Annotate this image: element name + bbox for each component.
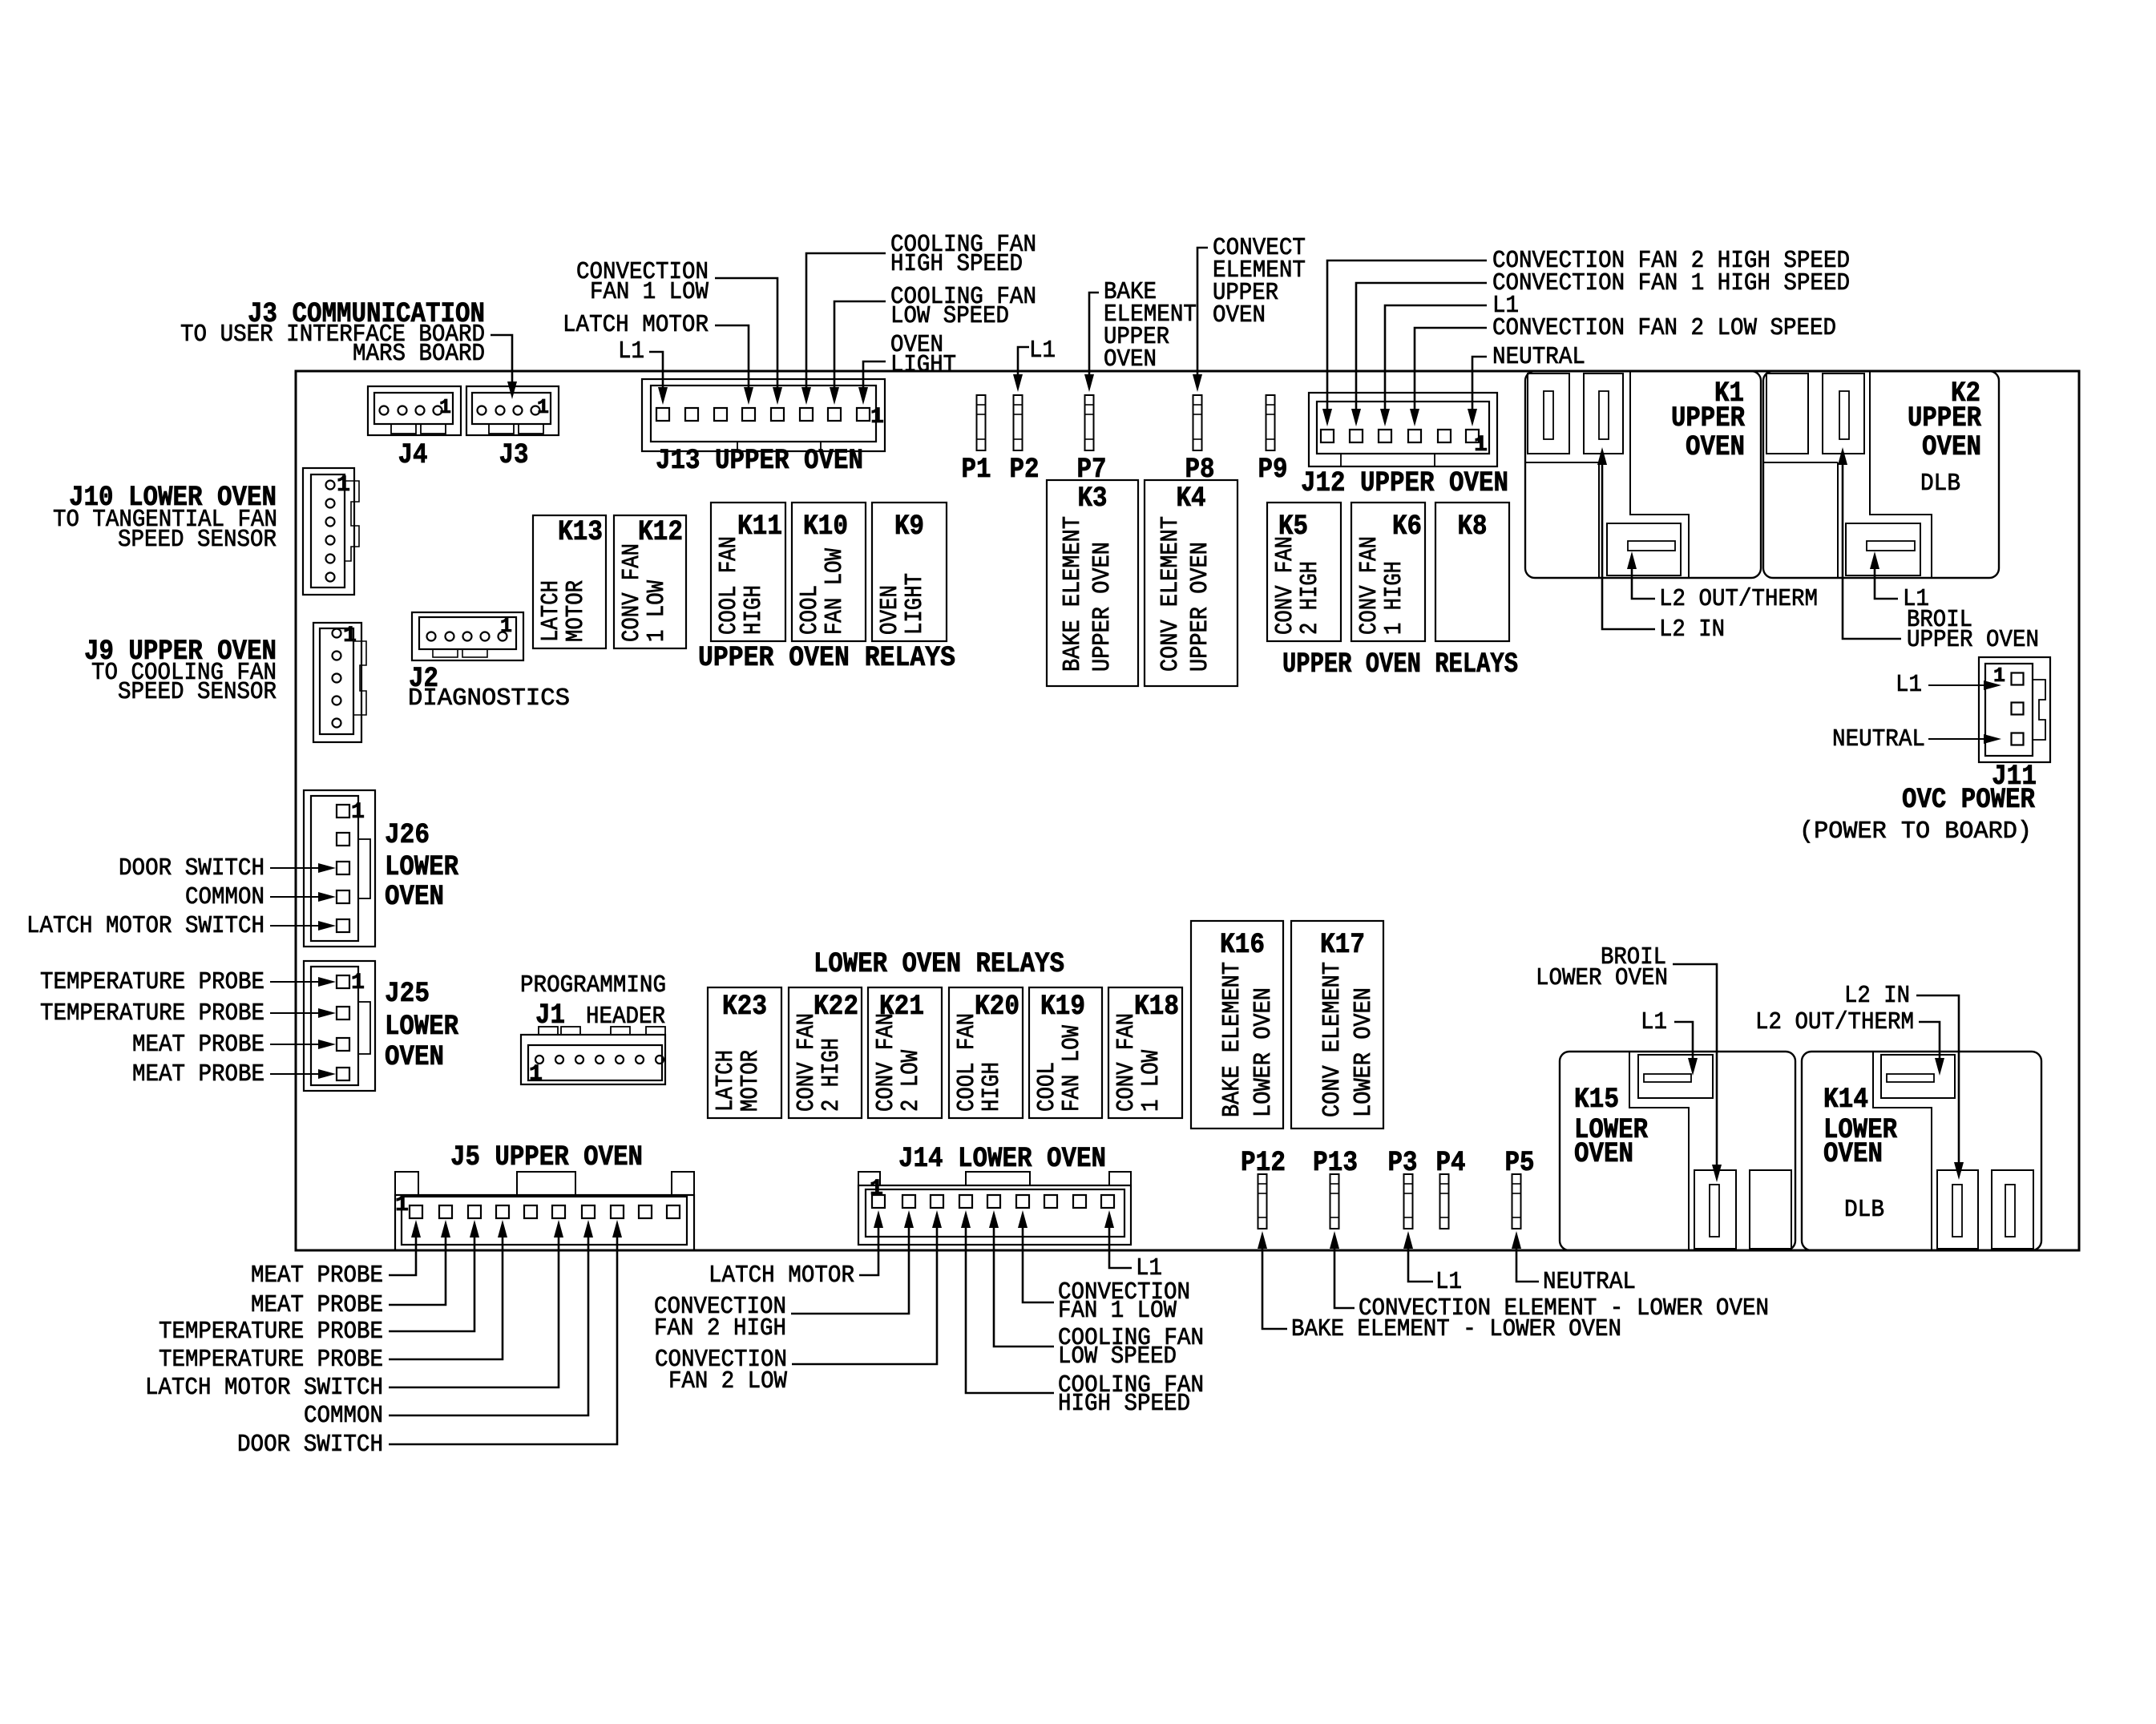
svg-text:LOW SPEED: LOW SPEED bbox=[1058, 1342, 1177, 1371]
svg-text:OVEN: OVEN bbox=[1686, 431, 1745, 463]
relay K12 bbox=[614, 515, 686, 648]
label LATCH MOTOR (J14) bbox=[709, 1262, 854, 1290]
svg-text:P4: P4 bbox=[1436, 1147, 1466, 1179]
connector J2 bbox=[412, 612, 523, 660]
svg-text:P2: P2 bbox=[1010, 454, 1040, 486]
label L1 (K2) bbox=[1903, 585, 1929, 613]
svg-text:J1: J1 bbox=[535, 999, 565, 1032]
svg-text:TEMPERATURE PROBE: TEMPERATURE PROBE bbox=[159, 1346, 383, 1374]
label CONVECTION FAN 1 HIGH SPEED (J12) bbox=[1492, 269, 1850, 297]
wire bbox=[389, 1220, 622, 1444]
svg-text:LOWER OVEN: LOWER OVEN bbox=[1536, 964, 1668, 992]
svg-text:HIGH: HIGH bbox=[978, 1062, 1006, 1112]
svg-text:J13 UPPER OVEN: J13 UPPER OVEN bbox=[656, 445, 863, 477]
wire bbox=[989, 1210, 1054, 1346]
relay K15 bbox=[1560, 1052, 1795, 1250]
svg-text:2 LOW: 2 LOW bbox=[897, 1050, 925, 1112]
wire bbox=[1512, 1231, 1539, 1282]
label COOLING FAN HIGH SPEED bbox=[890, 231, 1036, 278]
wire bbox=[1322, 260, 1487, 426]
svg-text:(POWER TO BOARD): (POWER TO BOARD) bbox=[1799, 818, 2032, 846]
wire to P8 bbox=[1193, 248, 1208, 392]
label L2 OUT/THERM (K14) bbox=[1755, 1008, 1914, 1036]
relay K3 bbox=[1047, 480, 1138, 686]
svg-text:CONV FAN: CONV FAN bbox=[872, 1013, 900, 1112]
wire bbox=[859, 1210, 883, 1275]
svg-text:FAN LOW: FAN LOW bbox=[821, 548, 849, 635]
svg-text:J4: J4 bbox=[398, 439, 428, 471]
connector J26 bbox=[304, 790, 375, 947]
svg-text:COMMON: COMMON bbox=[304, 1402, 383, 1430]
svg-text:UPPER OVEN: UPPER OVEN bbox=[1186, 542, 1214, 672]
svg-text:NEUTRAL: NEUTRAL bbox=[1492, 343, 1585, 371]
label L2 IN (K14) bbox=[1844, 982, 1910, 1010]
svg-text:K19: K19 bbox=[1040, 991, 1085, 1023]
label J3 COMMUNICATION bbox=[180, 298, 485, 368]
svg-text:DIAGNOSTICS: DIAGNOSTICS bbox=[408, 684, 570, 713]
label CONVECTION FAN 2 LOW SPEED (J12) bbox=[1492, 314, 1836, 342]
wire to P7 bbox=[1084, 293, 1099, 392]
svg-text:CONV FAN: CONV FAN bbox=[618, 543, 646, 642]
svg-text:OVEN: OVEN bbox=[1823, 1138, 1883, 1170]
pin P1 bbox=[977, 395, 986, 450]
svg-text:UPPER: UPPER bbox=[1671, 402, 1745, 434]
label MEAT PROBE (J5) bbox=[251, 1262, 383, 1290]
relay K19 bbox=[1029, 987, 1102, 1118]
label J13 UPPER OVEN bbox=[656, 445, 863, 477]
wire to K15 top slot bbox=[1674, 1022, 1698, 1076]
svg-text:DLB: DLB bbox=[1920, 470, 1960, 498]
svg-text:OVC POWER: OVC POWER bbox=[1902, 784, 2035, 816]
svg-text:BAKE ELEMENT: BAKE ELEMENT bbox=[1059, 516, 1087, 672]
wire bbox=[389, 1220, 563, 1387]
label TEMPERATURE PROBE bbox=[40, 999, 264, 1028]
label MEAT PROBE bbox=[132, 1060, 264, 1088]
wire bbox=[1468, 357, 1487, 426]
svg-text:HIGH: HIGH bbox=[740, 585, 768, 635]
label COOLING FAN HIGH SPEED (J14) bbox=[1058, 1371, 1204, 1418]
svg-text:CONV FAN: CONV FAN bbox=[1271, 536, 1299, 635]
label COOLING FAN LOW SPEED (J14) bbox=[1058, 1324, 1204, 1371]
svg-text:K20: K20 bbox=[975, 991, 1019, 1023]
svg-text:LIGHT: LIGHT bbox=[901, 573, 929, 635]
connector J12 bbox=[1309, 393, 1497, 466]
label P2 bbox=[1010, 454, 1040, 486]
svg-text:CONV FAN: CONV FAN bbox=[1355, 536, 1383, 635]
label P5 bbox=[1505, 1147, 1535, 1179]
wire bbox=[270, 1040, 336, 1049]
label LOWER OVEN RELAYS bbox=[814, 948, 1064, 980]
wire to J13 pin5 bbox=[715, 278, 782, 405]
svg-text:SPEED SENSOR: SPEED SENSOR bbox=[118, 678, 277, 706]
svg-text:P1: P1 bbox=[962, 454, 991, 486]
relay K5 bbox=[1267, 503, 1341, 641]
svg-text:LATCH MOTOR SWITCH: LATCH MOTOR SWITCH bbox=[145, 1374, 383, 1402]
wire bbox=[270, 1069, 336, 1079]
pin P5 bbox=[1512, 1174, 1521, 1229]
pin P13 bbox=[1330, 1174, 1339, 1229]
connector J3 bbox=[466, 386, 559, 435]
svg-text:OVEN: OVEN bbox=[385, 1041, 444, 1073]
label CONVECTION FAN 1 LOW bbox=[576, 258, 709, 306]
svg-text:K4: K4 bbox=[1177, 482, 1206, 515]
svg-text:COMMON: COMMON bbox=[185, 883, 264, 911]
svg-text:CONV ELEMENT: CONV ELEMENT bbox=[1157, 516, 1185, 672]
relay K11 bbox=[711, 503, 785, 641]
svg-text:CONV FAN: CONV FAN bbox=[1112, 1013, 1141, 1112]
wire bbox=[791, 1210, 914, 1314]
svg-text:LOWER: LOWER bbox=[385, 1011, 458, 1043]
label J2 DIAGNOSTICS bbox=[408, 663, 570, 713]
svg-text:L2 IN: L2 IN bbox=[1844, 982, 1910, 1010]
label P12 bbox=[1241, 1147, 1286, 1179]
wire bbox=[1351, 283, 1487, 426]
wire to K14 top slot bbox=[1919, 1022, 1944, 1076]
svg-text:1: 1 bbox=[337, 473, 350, 498]
label L1 (J11) bbox=[1896, 671, 1922, 699]
label COMMON (J5) bbox=[304, 1402, 383, 1430]
svg-text:P12: P12 bbox=[1241, 1147, 1286, 1179]
label UPPER OVEN RELAYS (left) bbox=[698, 642, 955, 674]
connector J13 bbox=[642, 379, 885, 451]
connector J10 bbox=[303, 468, 359, 595]
label MEAT PROBE bbox=[132, 1031, 264, 1059]
label L1 (K15) bbox=[1641, 1008, 1667, 1036]
svg-text:K11: K11 bbox=[737, 511, 782, 543]
svg-text:LATCH: LATCH bbox=[712, 1050, 740, 1112]
svg-text:LIGHT: LIGHT bbox=[890, 351, 956, 379]
svg-text:J5 UPPER OVEN: J5 UPPER OVEN bbox=[450, 1141, 643, 1173]
wire to J13 pin4 bbox=[715, 325, 753, 405]
pin P9 bbox=[1266, 395, 1275, 450]
label J10 LOWER OVEN bbox=[53, 482, 277, 554]
svg-text:OVEN: OVEN bbox=[1574, 1138, 1633, 1170]
relay K4 bbox=[1145, 480, 1237, 686]
label MEAT PROBE (J5) bbox=[251, 1291, 383, 1319]
svg-text:UPPER OVEN: UPPER OVEN bbox=[1088, 542, 1116, 672]
wire to P2 bbox=[1013, 347, 1029, 392]
svg-text:K16: K16 bbox=[1220, 929, 1265, 961]
svg-text:LOWER: LOWER bbox=[385, 851, 458, 883]
svg-text:HIGH SPEED: HIGH SPEED bbox=[1058, 1390, 1190, 1418]
svg-text:P9: P9 bbox=[1258, 454, 1288, 486]
wire bbox=[1403, 1231, 1433, 1282]
svg-text:K23: K23 bbox=[722, 991, 767, 1023]
wire to K1 top connector bbox=[1597, 447, 1655, 629]
label J11 OVC POWER bbox=[1799, 761, 2037, 846]
label P9 bbox=[1258, 454, 1288, 486]
label CONVECTION ELEMENT - LOWER OVEN bbox=[1359, 1294, 1769, 1322]
svg-text:DOOR SWITCH: DOOR SWITCH bbox=[237, 1431, 383, 1459]
wire bbox=[270, 1008, 336, 1018]
label L1 (P2) bbox=[1029, 337, 1056, 365]
label TEMPERATURE PROBE bbox=[40, 968, 264, 996]
svg-text:BAKE ELEMENT - LOWER OVEN: BAKE ELEMENT - LOWER OVEN bbox=[1291, 1315, 1621, 1343]
svg-text:K3: K3 bbox=[1078, 482, 1108, 515]
svg-text:2 HIGH: 2 HIGH bbox=[1296, 561, 1324, 635]
pin P7 bbox=[1085, 395, 1094, 450]
svg-text:MEAT PROBE: MEAT PROBE bbox=[251, 1291, 383, 1319]
pin P2 bbox=[1014, 395, 1023, 450]
label BROIL LOWER OVEN bbox=[1536, 943, 1668, 992]
relay K9 bbox=[872, 503, 947, 641]
svg-text:K18: K18 bbox=[1134, 991, 1179, 1023]
svg-text:TEMPERATURE PROBE: TEMPERATURE PROBE bbox=[159, 1318, 383, 1346]
connector J25 bbox=[304, 961, 375, 1091]
svg-text:2 HIGH: 2 HIGH bbox=[818, 1038, 846, 1112]
svg-text:1: 1 bbox=[870, 1177, 883, 1201]
svg-text:LOWER OVEN: LOWER OVEN bbox=[1350, 987, 1378, 1117]
svg-text:LATCH MOTOR SWITCH: LATCH MOTOR SWITCH bbox=[26, 912, 264, 940]
svg-text:COOL FAN: COOL FAN bbox=[715, 536, 743, 635]
label P7 bbox=[1077, 454, 1107, 486]
svg-text:1: 1 bbox=[870, 405, 884, 430]
label L2 IN (K1) bbox=[1659, 616, 1725, 644]
label J4 bbox=[398, 439, 428, 471]
svg-text:P3: P3 bbox=[1388, 1147, 1418, 1179]
svg-text:J14 LOWER OVEN: J14 LOWER OVEN bbox=[898, 1143, 1106, 1175]
wire bbox=[792, 1210, 942, 1364]
wire bbox=[1104, 1210, 1132, 1268]
relay K18 bbox=[1108, 987, 1182, 1118]
svg-text:K17: K17 bbox=[1320, 929, 1365, 961]
svg-text:K13: K13 bbox=[558, 516, 603, 548]
svg-text:OVEN: OVEN bbox=[1922, 431, 1981, 463]
wire to K1 lower slot bbox=[1627, 551, 1655, 599]
svg-text:MEAT PROBE: MEAT PROBE bbox=[132, 1031, 264, 1059]
label NEUTRAL (J11) bbox=[1832, 725, 1925, 753]
svg-text:L2 IN: L2 IN bbox=[1659, 616, 1725, 644]
connector J9 bbox=[313, 623, 366, 742]
svg-text:UPPER OVEN RELAYS: UPPER OVEN RELAYS bbox=[1282, 648, 1518, 680]
label BAKE ELEMENT UPPER OVEN bbox=[1104, 278, 1197, 373]
label NEUTRAL (J12) bbox=[1492, 343, 1585, 371]
svg-text:J26: J26 bbox=[385, 819, 430, 851]
svg-text:PROGRAMMING: PROGRAMMING bbox=[520, 971, 666, 999]
svg-text:L1: L1 bbox=[1029, 337, 1056, 365]
svg-text:MOTOR: MOTOR bbox=[562, 580, 590, 642]
svg-text:TEMPERATURE PROBE: TEMPERATURE PROBE bbox=[40, 968, 264, 996]
svg-text:1: 1 bbox=[351, 800, 365, 825]
svg-text:L2 OUT/THERM: L2 OUT/THERM bbox=[1659, 585, 1818, 613]
svg-text:1: 1 bbox=[500, 614, 512, 638]
svg-text:LOW SPEED: LOW SPEED bbox=[890, 302, 1009, 330]
wire to J13 pin1 bbox=[649, 352, 668, 405]
svg-text:K8: K8 bbox=[1458, 511, 1488, 543]
svg-text:J3: J3 bbox=[499, 439, 529, 471]
svg-text:DOOR SWITCH: DOOR SWITCH bbox=[119, 854, 264, 882]
svg-text:1 LOW: 1 LOW bbox=[643, 580, 671, 642]
label L1 (J12) bbox=[1492, 292, 1519, 320]
label TEMPERATURE PROBE (J5) bbox=[159, 1346, 383, 1374]
pin P3 bbox=[1404, 1174, 1413, 1229]
svg-text:K10: K10 bbox=[803, 511, 848, 543]
svg-text:J12 UPPER OVEN: J12 UPPER OVEN bbox=[1301, 467, 1508, 499]
svg-text:LOWER OVEN: LOWER OVEN bbox=[1250, 987, 1278, 1117]
connector J5 bbox=[395, 1172, 694, 1250]
svg-text:1: 1 bbox=[351, 971, 365, 995]
svg-text:1: 1 bbox=[343, 624, 357, 648]
label P3 bbox=[1388, 1147, 1418, 1179]
wire bbox=[1380, 305, 1487, 426]
svg-text:LATCH MOTOR: LATCH MOTOR bbox=[709, 1262, 854, 1290]
wire to K2 top connector bbox=[1838, 447, 1901, 639]
pin P12 bbox=[1258, 1174, 1267, 1229]
wire bbox=[961, 1210, 1054, 1393]
label J9 UPPER OVEN bbox=[84, 636, 277, 706]
label J12 UPPER OVEN bbox=[1301, 467, 1508, 499]
wire bbox=[389, 1220, 421, 1275]
connector J1 header bbox=[521, 1027, 665, 1087]
label NEUTRAL (P5) bbox=[1543, 1268, 1636, 1296]
label P1 bbox=[962, 454, 991, 486]
svg-text:UPPER OVEN RELAYS: UPPER OVEN RELAYS bbox=[698, 642, 955, 674]
relay K16 bbox=[1191, 921, 1283, 1128]
svg-text:NEUTRAL: NEUTRAL bbox=[1832, 725, 1925, 753]
svg-text:L1: L1 bbox=[618, 337, 644, 365]
svg-text:1: 1 bbox=[439, 395, 451, 419]
connector J4 bbox=[368, 386, 461, 435]
svg-text:CONVECTION FAN 2 LOW SPEED: CONVECTION FAN 2 LOW SPEED bbox=[1492, 314, 1836, 342]
label LATCH MOTOR SWITCH (J5) bbox=[145, 1374, 383, 1402]
wire bbox=[1410, 328, 1487, 426]
svg-text:FAN LOW: FAN LOW bbox=[1058, 1025, 1086, 1112]
svg-text:CONVECTION FAN 1 HIGH SPEED: CONVECTION FAN 1 HIGH SPEED bbox=[1492, 269, 1850, 297]
svg-text:SPEED SENSOR: SPEED SENSOR bbox=[118, 526, 277, 554]
svg-text:CONV ELEMENT: CONV ELEMENT bbox=[1318, 962, 1346, 1117]
relay K21 bbox=[868, 987, 942, 1118]
wire bbox=[389, 1220, 593, 1415]
wire bbox=[389, 1220, 450, 1305]
svg-text:1 LOW: 1 LOW bbox=[1137, 1050, 1165, 1112]
label CONVECTION FAN 2 LOW bbox=[655, 1346, 787, 1395]
wire bbox=[389, 1220, 479, 1331]
wire bbox=[270, 977, 336, 987]
svg-text:TEMPERATURE PROBE: TEMPERATURE PROBE bbox=[40, 999, 264, 1028]
label J5 UPPER OVEN bbox=[450, 1141, 643, 1173]
svg-text:MOTOR: MOTOR bbox=[737, 1050, 765, 1112]
relay K6 bbox=[1351, 503, 1425, 641]
label CONVECTION FAN 2 HIGH bbox=[654, 1293, 786, 1342]
relay K8 bbox=[1435, 503, 1509, 641]
svg-text:OVEN: OVEN bbox=[876, 585, 904, 635]
svg-text:DLB: DLB bbox=[1844, 1196, 1884, 1224]
wire J3 label leader bbox=[491, 335, 517, 399]
wire to K2 lower slot bbox=[1870, 551, 1898, 599]
label LATCH MOTOR SWITCH bbox=[26, 912, 264, 940]
wire bbox=[1330, 1231, 1355, 1308]
svg-text:COOL: COOL bbox=[1033, 1062, 1061, 1112]
svg-text:FAN 1 LOW: FAN 1 LOW bbox=[590, 278, 709, 306]
label J3 bbox=[499, 439, 529, 471]
svg-text:K9: K9 bbox=[894, 511, 924, 543]
label L1 (J14) bbox=[1136, 1254, 1162, 1282]
label COMMON bbox=[185, 883, 264, 911]
label UPPER OVEN RELAYS (right) bbox=[1282, 648, 1518, 680]
svg-text:K15: K15 bbox=[1574, 1084, 1619, 1116]
wire bbox=[270, 863, 336, 873]
wire bbox=[270, 892, 336, 902]
svg-text:1: 1 bbox=[395, 1193, 409, 1217]
svg-text:LATCH: LATCH bbox=[537, 580, 565, 642]
svg-text:LATCH MOTOR: LATCH MOTOR bbox=[563, 311, 709, 339]
wire to J13 pin7 bbox=[830, 301, 886, 405]
wire bbox=[1018, 1210, 1054, 1302]
wire to K15 lower connector bbox=[1673, 964, 1722, 1182]
relay K22 bbox=[789, 987, 862, 1118]
wire NEUTRAL to J11 pin3 bbox=[1928, 734, 2001, 744]
label P8 bbox=[1185, 454, 1215, 486]
svg-text:LOWER OVEN RELAYS: LOWER OVEN RELAYS bbox=[814, 948, 1064, 980]
svg-text:FAN 2 LOW: FAN 2 LOW bbox=[668, 1367, 787, 1395]
svg-text:MEAT PROBE: MEAT PROBE bbox=[251, 1262, 383, 1290]
label L1 (J13) bbox=[618, 337, 644, 365]
svg-text:HIGH SPEED: HIGH SPEED bbox=[890, 250, 1023, 278]
label J26 LOWER OVEN bbox=[385, 819, 458, 913]
svg-text:MARS BOARD: MARS BOARD bbox=[353, 340, 485, 368]
label L2 OUT/THERM (K1) bbox=[1659, 585, 1818, 613]
label DOOR SWITCH (J5) bbox=[237, 1431, 383, 1459]
connector J14 bbox=[858, 1172, 1131, 1245]
wire to J13 pin6 bbox=[801, 253, 886, 405]
wire bbox=[389, 1220, 507, 1359]
svg-text:P5: P5 bbox=[1505, 1147, 1535, 1179]
svg-text:HEADER: HEADER bbox=[586, 1003, 665, 1031]
svg-text:L1: L1 bbox=[1896, 671, 1922, 699]
label J25 LOWER OVEN bbox=[385, 978, 458, 1073]
label BROIL UPPER OVEN bbox=[1907, 606, 2039, 654]
svg-text:OVEN: OVEN bbox=[1213, 301, 1266, 329]
svg-text:FAN 1 LOW: FAN 1 LOW bbox=[1058, 1297, 1177, 1325]
svg-text:BAKE ELEMENT: BAKE ELEMENT bbox=[1218, 962, 1246, 1117]
svg-text:1: 1 bbox=[529, 1062, 543, 1087]
label COOLING FAN LOW SPEED bbox=[890, 283, 1036, 330]
label BAKE ELEMENT - LOWER OVEN bbox=[1291, 1315, 1621, 1343]
pin P8 bbox=[1193, 395, 1202, 450]
svg-text:UPPER: UPPER bbox=[1908, 402, 1981, 434]
label J14 LOWER OVEN bbox=[898, 1143, 1106, 1175]
svg-text:FAN 2 HIGH: FAN 2 HIGH bbox=[654, 1314, 786, 1342]
wire to K14 lower connector bbox=[1916, 995, 1964, 1180]
svg-text:K12: K12 bbox=[638, 516, 683, 548]
board outline bbox=[296, 371, 2079, 1250]
svg-text:OVEN: OVEN bbox=[385, 881, 444, 913]
relay K10 bbox=[792, 503, 866, 641]
relay K2 bbox=[1763, 371, 1999, 578]
svg-text:1 HIGH: 1 HIGH bbox=[1380, 561, 1408, 635]
svg-text:NEUTRAL: NEUTRAL bbox=[1543, 1268, 1636, 1296]
svg-text:L1: L1 bbox=[1641, 1008, 1667, 1036]
label DOOR SWITCH bbox=[119, 854, 264, 882]
svg-text:K6: K6 bbox=[1392, 511, 1422, 543]
label CONVECTION FAN 2 HIGH SPEED (J12) bbox=[1492, 247, 1850, 275]
svg-text:J25: J25 bbox=[385, 978, 430, 1010]
svg-text:COOL: COOL bbox=[796, 585, 824, 635]
label P4 bbox=[1436, 1147, 1466, 1179]
svg-text:1: 1 bbox=[1474, 433, 1488, 458]
label TEMPERATURE PROBE (J5) bbox=[159, 1318, 383, 1346]
relay K1 bbox=[1525, 371, 1761, 578]
svg-text:P13: P13 bbox=[1313, 1147, 1358, 1179]
svg-text:MEAT PROBE: MEAT PROBE bbox=[132, 1060, 264, 1088]
svg-text:CONV FAN: CONV FAN bbox=[793, 1013, 821, 1112]
svg-text:1: 1 bbox=[537, 395, 549, 419]
label OVEN LIGHT bbox=[890, 331, 956, 379]
wire bbox=[270, 921, 336, 931]
wire L1 to J11 pin1 bbox=[1928, 680, 2001, 690]
relay K23 bbox=[708, 987, 781, 1118]
label P13 bbox=[1313, 1147, 1358, 1179]
